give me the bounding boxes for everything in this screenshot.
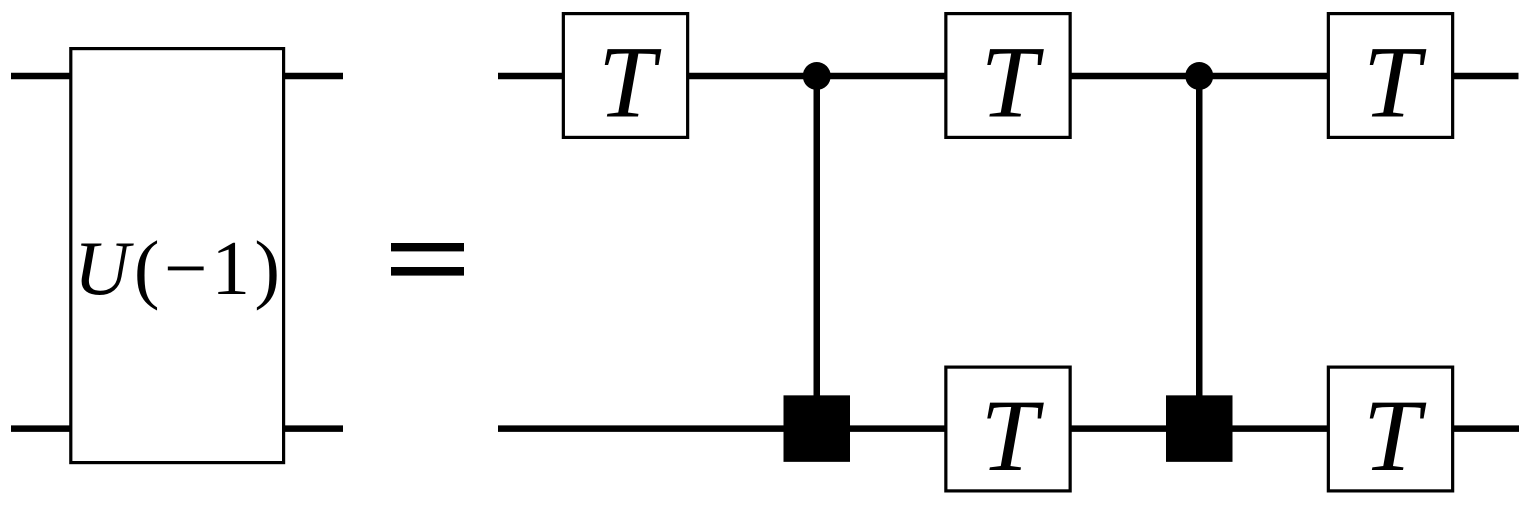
wire q0 input (left circuit, top-left stub) [11,73,70,80]
T gate box 3 (top row) [1328,14,1452,138]
equals sign [391,243,464,251]
wire q0 (right circuit, top rail) [498,73,1519,80]
svg-text:T: T [1363,379,1427,493]
T gate box 4 (bottom row) [946,367,1070,491]
filled square target 1 (bottom rail) [784,395,851,462]
wire vertical connector 1 (control to square) [814,76,821,429]
control dot 2 (top rail) [1185,62,1213,90]
wire vertical connector 2 (control to square) [1196,76,1203,429]
wire q1 output (left circuit, bottom-right stub) [284,425,343,432]
svg-text:T: T [598,26,662,140]
gate U(-1) two-qubit box [71,49,284,463]
svg-text:T: T [981,26,1045,140]
T gate box 5 (bottom row) [1328,367,1452,491]
T gate box 2 (top row) [946,14,1070,138]
svg-text:U(−1): U(−1) [74,225,280,311]
svg-text:T: T [981,379,1045,493]
wire q1 input (left circuit, bottom-left stub) [11,425,70,432]
control dot 1 (top rail) [803,62,831,90]
filled square target 2 (bottom rail) [1166,395,1233,462]
wire q0 output (left circuit, top-right stub) [284,73,343,80]
T gate box 1 (top row) [563,14,687,138]
svg-text:T: T [1363,26,1427,140]
wire q1 (right circuit, bottom rail) [498,425,1519,432]
